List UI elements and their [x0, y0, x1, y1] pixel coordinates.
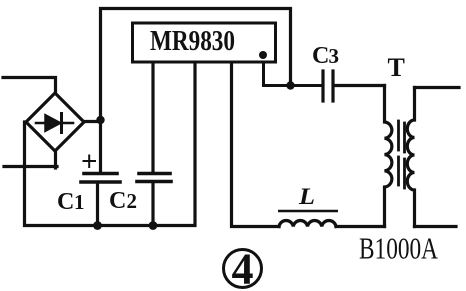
wire node A down to C1 — [99, 120, 102, 172]
wire AC input bottom — [4, 165, 57, 168]
wire secondary top output — [415, 86, 460, 89]
pin dot inside U1 — [259, 51, 267, 59]
wire secondary bottom output — [415, 225, 457, 228]
svg-text:C: C — [312, 43, 329, 69]
wire bridge positive output to dot — [84, 120, 100, 123]
transformer T secondary winding — [407, 88, 414, 227]
label C3 — [312, 43, 339, 69]
diode symbol inside bridge — [36, 114, 73, 133]
svg-text:T: T — [388, 53, 405, 82]
capacitor C1 — [81, 174, 120, 227]
svg-text:C: C — [109, 188, 126, 214]
node A junction dot — [96, 116, 104, 124]
wire bridge negative to ground rail and pin2 of U1 — [25, 63, 196, 226]
junction dot C2-ground — [149, 221, 158, 230]
op-amp U1 box MR9830 — [133, 23, 276, 62]
plus sign of C1 — [84, 156, 96, 168]
svg-text:3: 3 — [329, 44, 340, 68]
svg-text:2: 2 — [127, 189, 138, 213]
wire pin3 of U1 down to inductor — [232, 63, 280, 227]
wire pin4 of U1 to node B and C3 — [264, 63, 322, 86]
svg-text:B1000A: B1000A — [359, 231, 438, 266]
transformer T primary winding — [385, 86, 392, 227]
svg-text:C: C — [57, 189, 74, 215]
capacitor C3 — [323, 71, 385, 101]
underline of L — [278, 210, 338, 213]
wire pin1 of U1 to C2 — [151, 63, 154, 172]
inductor L — [279, 221, 336, 227]
label C2 — [109, 188, 137, 214]
bridge rectifier D — [26, 93, 84, 151]
wire AC input top — [3, 78, 56, 94]
svg-text:1: 1 — [74, 190, 85, 214]
node B junction dot — [286, 81, 294, 89]
wire bridge bottom corner lead — [54, 151, 57, 168]
figure number circle — [224, 250, 262, 288]
label C1 — [57, 189, 85, 215]
svg-text:MR9830: MR9830 — [150, 26, 235, 57]
wire inductor to transformer primary bottom — [336, 225, 385, 228]
svg-text:L: L — [298, 184, 315, 209]
capacitor C2 — [137, 174, 171, 226]
svg-text:4: 4 — [232, 245, 254, 291]
wire top loop from node A up over to node B — [101, 9, 291, 121]
junction dot C1-ground — [93, 221, 102, 230]
transformer core lines — [399, 121, 405, 188]
